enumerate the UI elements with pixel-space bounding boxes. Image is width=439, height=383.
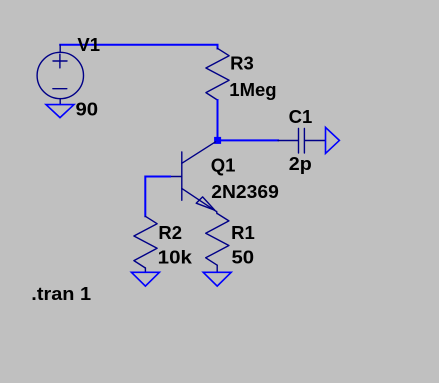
ground [46, 105, 74, 118]
resistor R3 [206, 48, 229, 100]
svg-text:R1: R1 [231, 222, 255, 243]
svg-text:10k: 10k [158, 247, 193, 268]
transistor Q1 [170, 142, 217, 214]
svg-text:2N2369: 2N2369 [211, 181, 278, 202]
wire [145, 177, 170, 217]
svg-text:1Meg: 1Meg [229, 79, 276, 100]
ground [203, 272, 231, 286]
svg-text:2p: 2p [289, 153, 312, 174]
svg-text:50: 50 [232, 247, 255, 268]
svg-text:R2: R2 [158, 222, 182, 243]
svg-text:C1: C1 [289, 106, 313, 127]
ground [131, 272, 159, 286]
resistor R2 [134, 216, 157, 272]
svg-text:.tran 1: .tran 1 [31, 283, 91, 304]
node [214, 137, 221, 144]
resistor R1 [206, 214, 229, 273]
svg-text:Q1: Q1 [211, 155, 236, 176]
capacitor C1 [278, 129, 325, 154]
svg-text:V1: V1 [77, 34, 100, 55]
wire [60, 45, 217, 49]
voltage source V1 [37, 45, 83, 104]
wire [217, 100, 219, 137]
svg-text:R3: R3 [230, 53, 254, 74]
ground [326, 127, 340, 153]
wire [221, 139, 278, 141]
svg-text:90: 90 [76, 99, 99, 120]
